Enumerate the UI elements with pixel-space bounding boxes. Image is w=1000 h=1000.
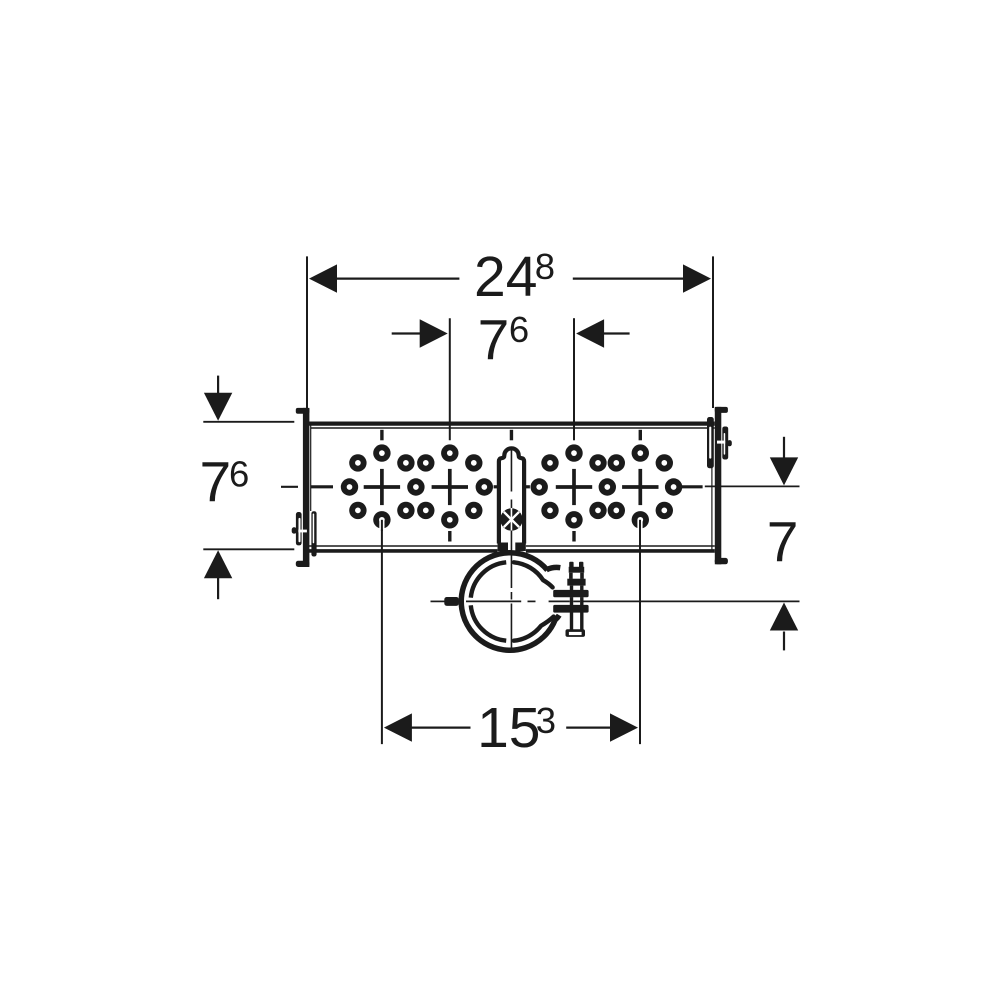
svg-text:6: 6 bbox=[509, 309, 529, 350]
svg-text:7: 7 bbox=[767, 510, 799, 574]
svg-text:7: 7 bbox=[478, 309, 510, 373]
svg-text:6: 6 bbox=[229, 453, 249, 494]
svg-text:7: 7 bbox=[200, 451, 232, 515]
svg-text:24: 24 bbox=[474, 245, 537, 309]
svg-text:8: 8 bbox=[535, 246, 555, 287]
svg-text:15: 15 bbox=[477, 696, 540, 760]
svg-text:3: 3 bbox=[536, 700, 556, 741]
